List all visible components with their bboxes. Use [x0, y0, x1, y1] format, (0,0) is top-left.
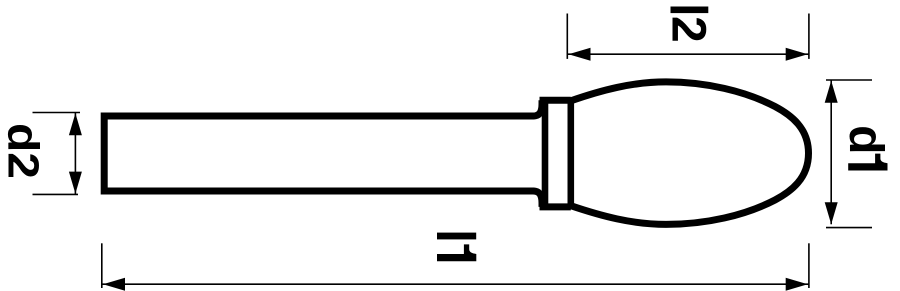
dimension d2: bottom witness line	[33, 193, 79, 195]
dimension l2: right witness line	[808, 14, 810, 59]
fillet shank to collar (bottom)	[533, 191, 542, 207]
shank (cylindrical body, diameter d2)	[104, 116, 534, 191]
dimension d2: top witness line	[33, 112, 81, 114]
svg-text:d: d	[839, 125, 892, 154]
collar right edge	[567, 98, 574, 209]
dimension d1: top witness line	[826, 79, 872, 81]
egg-shaped cutting head (diameter d1, length l2)	[571, 82, 809, 225]
dimension d1: dimension line	[830, 80, 832, 224]
collar left edge	[542, 98, 549, 209]
dimension d2: down arrowhead	[69, 172, 82, 194]
dimension d1: bottom witness line	[826, 227, 872, 229]
label l1: digit 1 (drawn)	[437, 244, 476, 261]
dimension l2: dimension line	[567, 53, 809, 55]
dimension l1: left witness line	[101, 243, 103, 288]
dimension d2: up arrowhead	[69, 113, 82, 135]
dimension d1: up arrowhead	[825, 81, 838, 103]
dimension l1: dimension line	[102, 283, 809, 285]
dimension l2: left arrowhead	[569, 48, 591, 61]
dimension d1: down arrowhead	[825, 202, 838, 224]
dimension l2: right arrowhead	[786, 48, 808, 61]
collar bottom bar	[540, 203, 571, 210]
dimension d2: dimension line	[74, 113, 76, 195]
fillet shank to collar (top)	[533, 100, 542, 116]
dimension l2: left witness line	[566, 14, 568, 59]
dimension l1: left arrowhead	[103, 278, 125, 291]
label l1: letter l (drawn bar)	[437, 233, 476, 240]
svg-text:2: 2	[661, 16, 714, 43]
dimension l1: right arrowhead	[786, 278, 808, 291]
label d1: digit 1 (drawn)	[848, 154, 887, 171]
collar top bar	[540, 97, 571, 104]
label l2: letter l (drawn bar)	[671, 7, 709, 14]
svg-text:d2: d2	[0, 123, 48, 179]
dimension l1: right witness line	[808, 243, 810, 288]
